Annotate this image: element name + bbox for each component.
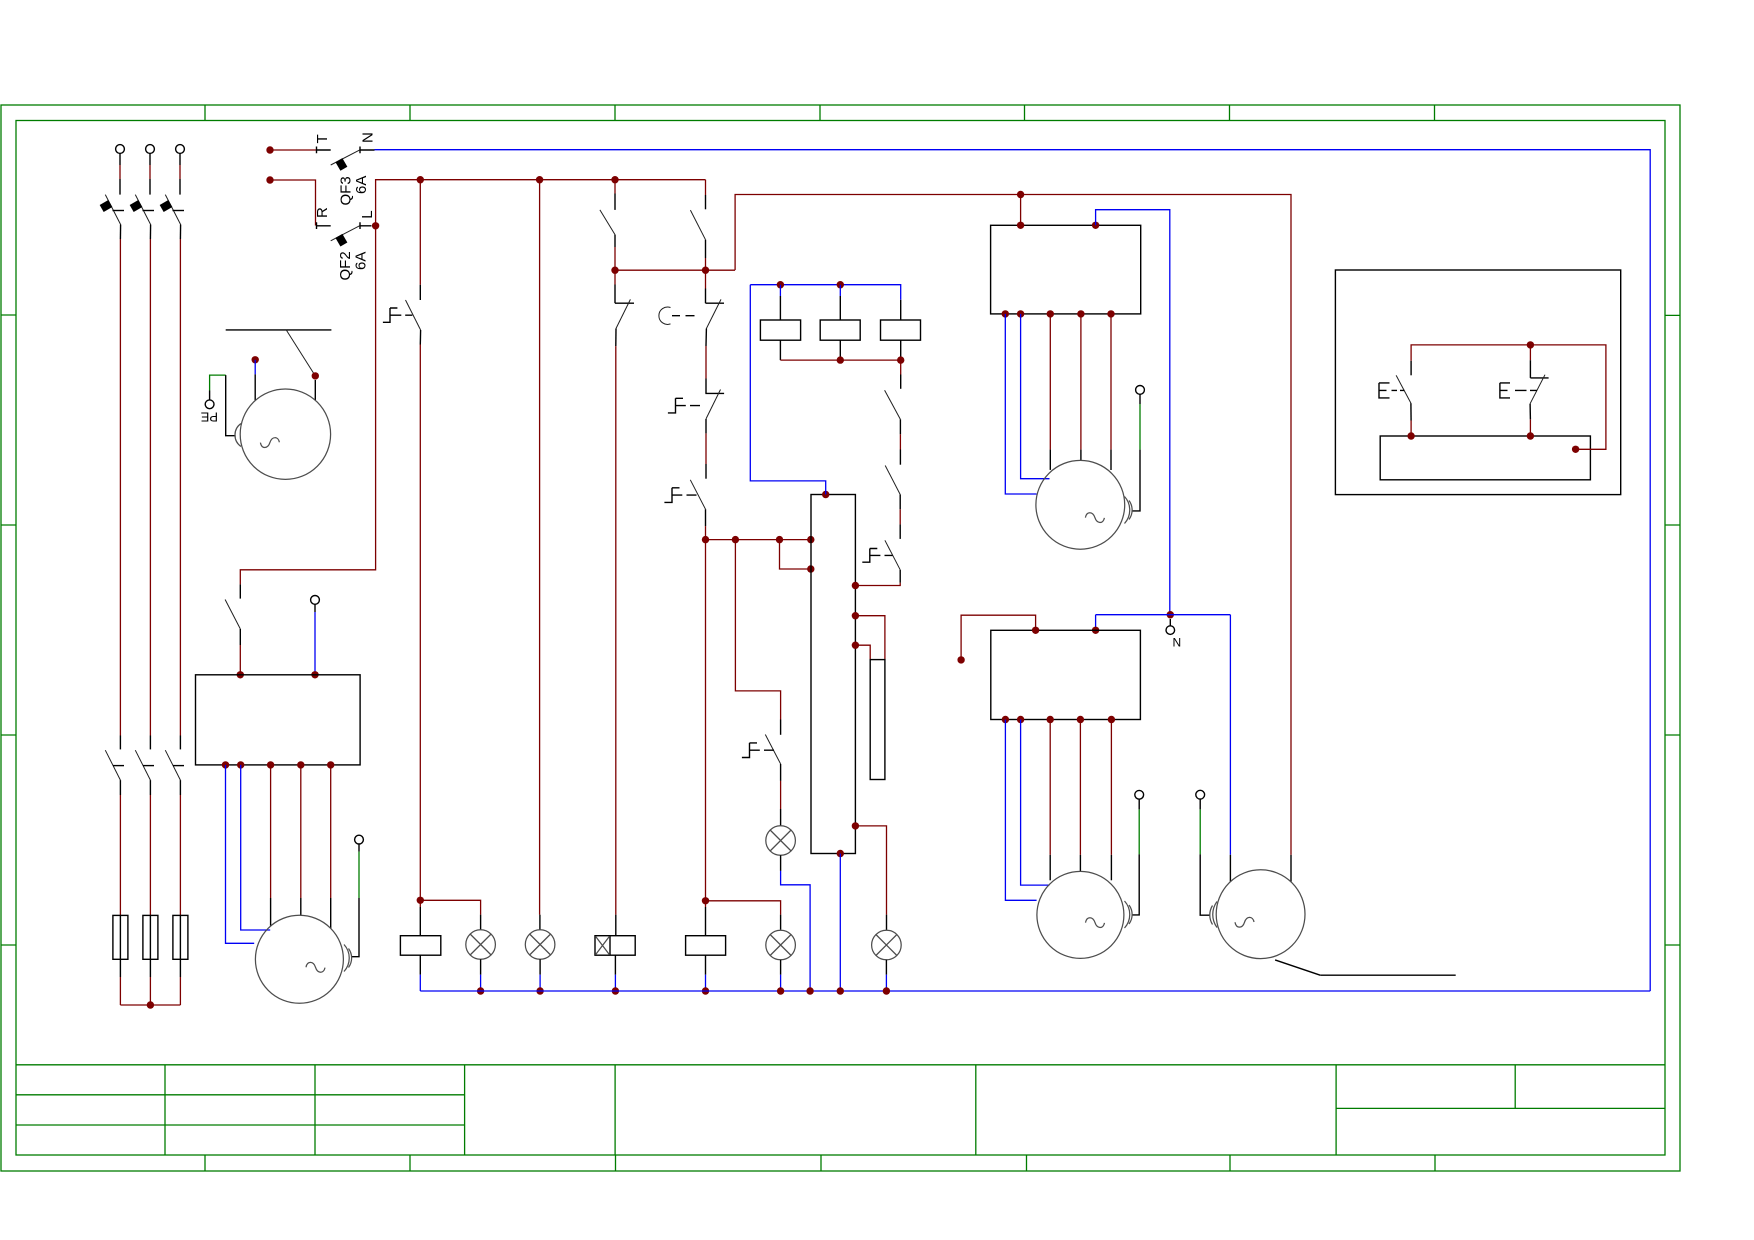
motor M4 (1037, 871, 1124, 958)
wire KM1 out V to M2b (300, 765, 302, 916)
knife disconnect above M1 (226, 330, 332, 376)
hanging net stub with dot (957, 615, 1035, 663)
wire to element top-left (855, 645, 870, 659)
timer box right edge nodes (852, 582, 859, 830)
wire x540 rail (539, 180, 541, 930)
PE terminal M3 (1196, 790, 1210, 915)
wire KM3 W to M4 (1110, 720, 1112, 881)
wire KM3 V to M4 (1079, 720, 1081, 872)
contactor KM1 main contact pole 3 (165, 750, 184, 780)
relay coil K2 (686, 901, 726, 995)
svg-text:R: R (314, 207, 331, 218)
wire N to M3 (1229, 615, 1231, 882)
motor M3 shaft line (1275, 960, 1320, 975)
wire red feeder second rail (735, 191, 1291, 855)
junction dots on red bus (417, 176, 619, 183)
frame ticks top (205, 105, 1435, 121)
breaker QF3 (317, 147, 375, 171)
contact NO chain 2 (x=900) (885, 466, 900, 539)
wire KM2 U to M2 (1049, 314, 1051, 470)
title block (16, 1065, 1665, 1155)
wire KM2 V to M2 (1080, 314, 1082, 461)
node K1 top junction (417, 897, 481, 936)
fuse FU2 (143, 915, 158, 959)
svg-text:6A: 6A (353, 176, 370, 194)
wire short jog from bus539 (780, 540, 811, 569)
pushbutton NO with actuator (x=780) (742, 720, 781, 826)
blue coil rail (750, 281, 900, 300)
motor M1 (240, 389, 330, 479)
node on timer box left edge (807, 565, 814, 572)
sheet frame inner (16, 121, 1665, 1156)
svg-text:6A: 6A (353, 252, 370, 270)
wire KM1 out blue 2 to M2b (241, 765, 271, 930)
frame ticks right (1665, 315, 1680, 945)
wire L net: down to left contactor (240, 226, 375, 585)
contactor KM3 box (991, 627, 1141, 720)
wire KM2 blue 2 to M2 (1021, 314, 1050, 479)
E-box red top wiring (1411, 341, 1606, 453)
contactor KM1 box (196, 675, 361, 765)
wire pole3 to fuse (179, 780, 181, 915)
motor M2b frame bracket (344, 945, 352, 972)
node timer box bottom (837, 850, 844, 995)
thermal NC contact (x=615) (615, 270, 634, 915)
pushbutton SB1 (x=420) (383, 180, 421, 901)
left contactor coil feed contact KM1 aux (225, 584, 244, 678)
wire KM2 blue 1 to M2 (1005, 314, 1036, 494)
star point bus (120, 1001, 180, 1008)
motor M2 frame bracket (1125, 497, 1133, 524)
time-delay NC contact (x=706) (659, 270, 724, 378)
E-box terminal strip (1380, 436, 1590, 480)
lamp HL5 (872, 915, 902, 995)
wire L net: up and right main red bus (376, 180, 706, 226)
E-box outer enclosure (1335, 270, 1620, 495)
relay coil KA1 (760, 285, 800, 360)
wire N blue top rail (375, 150, 1651, 991)
relay coil K1 (400, 936, 440, 991)
frame ticks left (1, 315, 16, 945)
motor M2b (255, 915, 343, 1003)
contactor KM2 box (991, 195, 1141, 314)
motor M3 (1216, 870, 1305, 959)
wire KM1 out U to M2b (270, 765, 272, 926)
wire KM3 blue 2 to M4 (1021, 720, 1050, 886)
breaker QF2 (317, 222, 372, 246)
contactor KM1 main contact pole 1 (105, 750, 124, 780)
pushbutton NO (x=706 lower) (664, 464, 706, 540)
KM3 bottom terminals (1002, 716, 1115, 723)
node stub R (266, 176, 315, 225)
PE terminal M4 (1132, 790, 1144, 915)
contact NO chain 1 (x=900) (885, 360, 901, 465)
lamp HL3 (upper) (766, 826, 814, 995)
red bus y539.6 (702, 536, 815, 543)
lamp HL2 (525, 930, 555, 995)
pushbutton NO with actuator chain 3 (x=900) (855, 540, 900, 585)
motor M4 frame bracket (1125, 901, 1133, 928)
wire KM2 W to M2 (1110, 314, 1112, 470)
svg-text:QF2: QF2 (337, 251, 354, 280)
blue bottom bus (420, 990, 1650, 992)
PE terminal M2b (352, 835, 364, 957)
fuse FU1 (113, 915, 128, 959)
breaker QF1 pole 1 (100, 195, 124, 225)
node M1 pin left (252, 356, 259, 400)
motor M3 frame bracket (1210, 902, 1217, 928)
wire L1 vertical (119, 225, 121, 750)
wire KM1 out W to M2b (330, 765, 332, 929)
contactor KM1 main contact pole 2 (135, 750, 154, 780)
node blue top of timer box (750, 285, 829, 498)
heater element rect (870, 660, 885, 780)
frame ticks bottom (205, 1155, 1435, 1171)
wire x706 long drop (702, 540, 709, 905)
svg-text:PE: PE (200, 410, 218, 425)
KM2 bottom terminals (1002, 310, 1115, 317)
blue from KM2 to N rail (1096, 210, 1170, 615)
node stub T (266, 146, 316, 153)
wire L3 top (179, 154, 181, 195)
svg-text:L: L (359, 210, 376, 218)
wire L2 top (149, 154, 151, 195)
wire fuse bottoms to star bus (120, 959, 180, 1005)
fuse FU3 (173, 915, 188, 959)
wire to lamp HL4 (706, 901, 781, 915)
svg-text:N: N (360, 132, 377, 143)
wire KM3 blue 1 to M4 (1005, 720, 1036, 901)
relay coil KA3 (881, 300, 921, 360)
relay coil KA2 (820, 285, 860, 360)
emergency stop NO (left) (1379, 361, 1415, 440)
motor M2 (1036, 460, 1125, 549)
wire L1 top (119, 154, 121, 195)
blue stub terminal above left contactor (311, 596, 320, 679)
wire K3 branch from bus539 (735, 540, 780, 720)
svg-text:N: N (1173, 635, 1182, 649)
node bus y270 (611, 267, 735, 274)
breaker QF1 pole 3 (160, 195, 184, 225)
node M1 pin right (312, 372, 319, 400)
N node tee (1092, 611, 1231, 634)
PE terminal M2 (1132, 386, 1144, 511)
thermal NC contact with actuator (x=706) (668, 379, 724, 465)
red coil bus y360 (780, 356, 904, 363)
KM1 bottom terminal dots (222, 761, 335, 768)
svg-text:QF3: QF3 (338, 176, 355, 205)
wire pole1 to fuse (119, 780, 121, 915)
PE terminal M1 (205, 375, 235, 436)
wire KM1 out blue 1 to M2b (226, 765, 255, 943)
node L junction (372, 222, 379, 229)
wire L2 vertical (149, 225, 151, 750)
wire timer to lamp HL5 (855, 826, 886, 915)
3-phase input terminals L1 L2 L3 (116, 145, 185, 154)
breaker QF1 pole 2 (130, 195, 154, 225)
svg-text:T: T (314, 134, 331, 143)
wire R feeder to M3 (1290, 855, 1292, 882)
wire L3 vertical (179, 225, 181, 750)
motor M1 frame bracket (235, 424, 241, 447)
emergency stop NC (right) (1500, 345, 1549, 440)
buzzer HA1 (595, 915, 635, 995)
lamp HL1 (466, 915, 496, 995)
lamp HL4 (x=780 lower) (766, 915, 796, 995)
wire KM3 U to M4 (1049, 720, 1051, 881)
contact KM aux NO (x=615 top) (600, 180, 615, 271)
contact KM aux NO (x=706 top) (690, 180, 705, 270)
wire pole2 to fuse (149, 780, 151, 915)
N terminal (1166, 619, 1175, 634)
timer box KT1 (811, 495, 855, 854)
wire to element top-right (855, 616, 885, 660)
